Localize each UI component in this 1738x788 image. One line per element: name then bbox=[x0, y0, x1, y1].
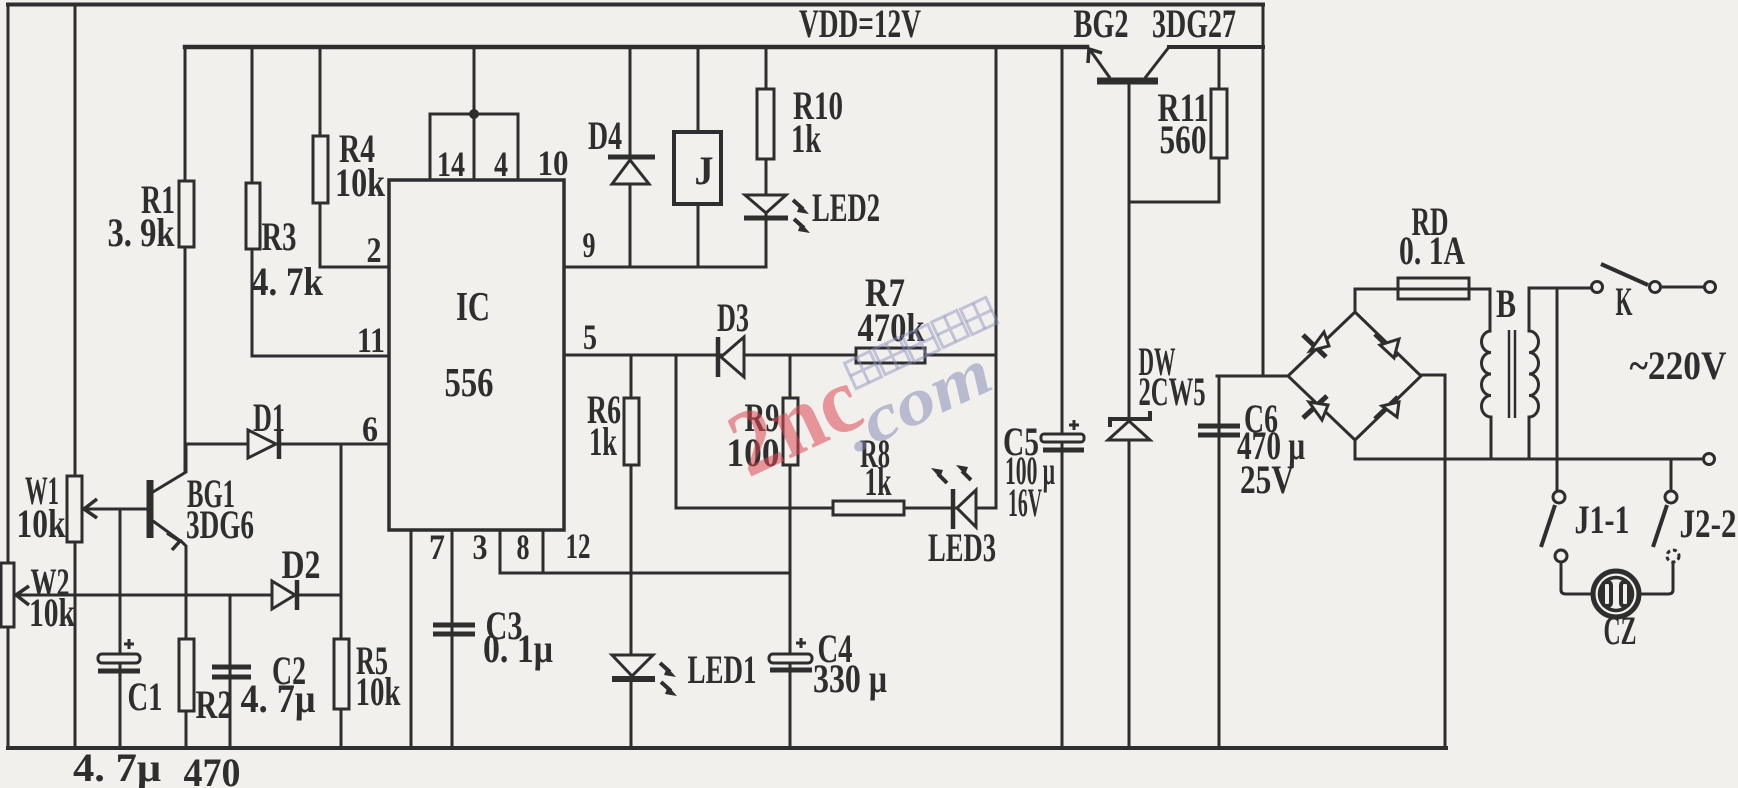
wire R6 / LED1 column bbox=[630, 355, 633, 748]
svg-text:3DG6: 3DG6 bbox=[186, 502, 254, 547]
wire secondary top lead bbox=[1529, 288, 1591, 331]
svg-text:LED3: LED3 bbox=[928, 525, 996, 570]
resistor R9 body bbox=[783, 398, 798, 465]
svg-text:D4: D4 bbox=[588, 113, 622, 158]
svg-text:LED1: LED1 bbox=[688, 647, 757, 692]
transistor BG2 collector bbox=[1145, 47, 1169, 78]
svg-text:4. 7μ: 4. 7μ bbox=[241, 676, 316, 721]
fuse RD through line bbox=[1398, 288, 1469, 291]
LED2 cathode bar bbox=[744, 216, 788, 221]
wire mains feed column bbox=[1556, 288, 1559, 491]
wire R1 column bbox=[184, 47, 187, 471]
svg-text:K: K bbox=[1616, 279, 1633, 324]
wire R4 column bbox=[319, 47, 322, 267]
wire fuse to primary bbox=[1469, 289, 1490, 331]
wire R10 / LED2 column bbox=[765, 47, 768, 267]
wire bridge top stub to fuse line bbox=[1355, 289, 1398, 312]
svg-text:0. 1A: 0. 1A bbox=[1399, 228, 1465, 273]
bridge diode bottom-left bbox=[1303, 396, 1327, 418]
LED1 arrows bbox=[660, 663, 670, 672]
svg-text:556: 556 bbox=[445, 359, 494, 405]
wire J1-1 to CZ bbox=[1561, 562, 1593, 594]
LED2 arrows bbox=[793, 200, 803, 209]
svg-text:8: 8 bbox=[517, 527, 530, 567]
wire R11 column bbox=[1218, 47, 1221, 202]
potentiometer W2 wiper arrow bbox=[16, 586, 29, 605]
wire DW column from BG2 base bbox=[1128, 84, 1131, 748]
svg-text:10k: 10k bbox=[356, 669, 402, 714]
svg-text:470k: 470k bbox=[858, 305, 926, 350]
transformer B secondary winding bbox=[1529, 331, 1539, 417]
capacitor C6 plates bbox=[1198, 426, 1240, 435]
wire right border down to bridge line bbox=[1262, 5, 1265, 377]
wire bridge bottom stub bbox=[1354, 440, 1357, 459]
svg-text:0. 1μ: 0. 1μ bbox=[483, 626, 553, 671]
svg-text:7: 7 bbox=[429, 527, 445, 567]
wire C1 column bbox=[119, 509, 122, 748]
svg-text:4. 7μ: 4. 7μ bbox=[73, 745, 161, 788]
relay J box bbox=[674, 132, 721, 204]
wire loop left column bbox=[675, 355, 678, 508]
wire pin9 line bbox=[564, 266, 766, 269]
watermark bbox=[713, 297, 1003, 497]
relay contact J2-2 blade bbox=[1653, 505, 1667, 547]
diode D4 cathode bar bbox=[608, 155, 655, 160]
svg-text:~220V: ~220V bbox=[1630, 343, 1727, 388]
svg-text:25V: 25V bbox=[1240, 457, 1294, 502]
wire bottom ground rail bbox=[8, 746, 1446, 750]
junction dot pins 14/4 feeder bbox=[469, 109, 479, 119]
svg-text:D1: D1 bbox=[253, 395, 285, 440]
svg-text:16V: 16V bbox=[1008, 480, 1042, 525]
LED1 cathode bar bbox=[612, 676, 655, 682]
wire R3 column bbox=[251, 47, 254, 356]
resistor R6 body bbox=[624, 398, 639, 465]
diode D4 triangle bbox=[612, 160, 649, 184]
wire secondary bottom lead bbox=[1528, 417, 1531, 459]
svg-text:1k: 1k bbox=[791, 116, 822, 161]
svg-text:560: 560 bbox=[1160, 117, 1207, 162]
transistor BG2 emitter with open arrowhead bbox=[1090, 50, 1110, 78]
capacitor C4 electrolytic positive plate bbox=[769, 654, 812, 663]
transistor BG2 base bar bbox=[1097, 78, 1158, 85]
wire pin8 lead bbox=[499, 530, 502, 573]
potentiometer W1 body bbox=[67, 476, 82, 542]
capacitor C1 negative plate bbox=[98, 669, 140, 674]
capacitor C4 plus sign bbox=[796, 638, 806, 648]
svg-text:IC: IC bbox=[456, 283, 490, 329]
svg-text:6: 6 bbox=[362, 409, 378, 449]
watermark CJK char boxes bbox=[844, 297, 997, 388]
svg-text:D3: D3 bbox=[717, 295, 749, 340]
LED3 cathode bar bbox=[951, 489, 956, 529]
bridge diode bottom-right bbox=[1375, 397, 1398, 419]
svg-text:4: 4 bbox=[494, 144, 508, 184]
relay contact J1-1 blade bbox=[1541, 505, 1555, 547]
LED1 triangle bbox=[612, 655, 653, 676]
wire VDD rail collector segment bbox=[1169, 45, 1263, 49]
capacitor C5 electrolytic positive plate bbox=[1041, 434, 1084, 442]
svg-text:3. 9k: 3. 9k bbox=[108, 210, 176, 255]
wire W1 column bbox=[74, 5, 77, 749]
resistor R3 body bbox=[246, 183, 260, 249]
resistor R8 body bbox=[833, 501, 904, 515]
transformer B primary winding bbox=[1482, 331, 1492, 417]
wire BG1 collector bbox=[153, 444, 186, 492]
wire pin7 column bbox=[410, 530, 413, 748]
wire pin2 lead bbox=[320, 266, 389, 269]
socket CZ inner circle bbox=[1600, 578, 1633, 611]
wire R9 / C4 column bbox=[789, 355, 792, 748]
relay contact J2-2 top circle bbox=[1665, 491, 1677, 503]
svg-text:BG2: BG2 bbox=[1074, 1, 1129, 46]
wire pin8/12 horizontal bbox=[500, 572, 790, 575]
relay contact J1-1 top circle bbox=[1553, 491, 1565, 503]
mains top terminal bbox=[1705, 282, 1716, 293]
wire BG1 emitter lead down through R2 bbox=[181, 541, 186, 748]
IC 556 box bbox=[389, 180, 564, 530]
svg-text:10k: 10k bbox=[335, 160, 386, 205]
capacitor C1 plus sign bbox=[124, 639, 134, 649]
wire J2-2 stub bbox=[1670, 459, 1673, 491]
svg-text:1k: 1k bbox=[589, 419, 617, 464]
wire C5 column bbox=[1061, 47, 1064, 748]
fuse RD body bbox=[1398, 278, 1469, 299]
resistor R7 body bbox=[856, 348, 925, 363]
socket CZ outer circle bbox=[1593, 571, 1639, 617]
resistor R10 body bbox=[757, 89, 774, 159]
capacitor C5 negative plate bbox=[1043, 448, 1084, 453]
wire pin5 line bbox=[564, 354, 996, 357]
svg-text:VDD=12V: VDD=12V bbox=[799, 1, 921, 46]
svg-text:B: B bbox=[1496, 281, 1516, 326]
capacitor C1 electrolytic positive plate bbox=[98, 654, 140, 663]
wire right loop column bbox=[995, 47, 998, 508]
wire bridge right to ground bbox=[1421, 375, 1445, 748]
wire D1-D2 junction column and R5 column bbox=[340, 444, 343, 748]
wire primary bottom lead bbox=[1490, 417, 1493, 459]
svg-text:C1: C1 bbox=[128, 674, 163, 719]
svg-text:11: 11 bbox=[357, 320, 385, 360]
wire bridge diamond bbox=[1288, 312, 1421, 440]
transformer B core bbox=[1509, 330, 1515, 418]
switch K middle terminal bbox=[1650, 282, 1661, 293]
diode D2 bbox=[272, 581, 295, 609]
wire pin3 / C3 column bbox=[451, 530, 454, 748]
capacitor C3 plates bbox=[433, 625, 475, 634]
wire pin11 lead bbox=[252, 355, 389, 358]
svg-text:D2: D2 bbox=[282, 542, 321, 587]
svg-text:14: 14 bbox=[437, 144, 465, 184]
resistor R1 body bbox=[179, 181, 194, 247]
switch K blade bbox=[1601, 264, 1648, 285]
bridge diode top-left bbox=[1303, 335, 1326, 357]
svg-text:CZ: CZ bbox=[1604, 608, 1637, 653]
LED3 triangle bbox=[957, 490, 976, 527]
svg-text:R3: R3 bbox=[262, 214, 297, 259]
resistor R5 body bbox=[334, 639, 349, 709]
wire K link bbox=[1661, 286, 1704, 289]
wire bracket feeder pins 14-4 bbox=[473, 47, 476, 180]
switch K left terminal bbox=[1592, 282, 1603, 293]
wire W2 wiper / D2 line bbox=[16, 594, 339, 597]
wire bottom AC line bbox=[1355, 458, 1703, 461]
svg-text:4. 7k: 4. 7k bbox=[251, 259, 324, 304]
capacitor C2 plates bbox=[212, 667, 251, 677]
svg-text:J1-1: J1-1 bbox=[1575, 497, 1630, 542]
svg-text:10k: 10k bbox=[17, 501, 67, 546]
capacitor C4 negative plate bbox=[770, 668, 812, 673]
transistor BG1 emitter with open arrowhead bbox=[153, 521, 179, 540]
svg-text:470: 470 bbox=[184, 750, 241, 788]
mains bottom terminal bbox=[1704, 454, 1715, 465]
diode D3 triangle bbox=[721, 337, 744, 377]
resistor R4 body bbox=[313, 136, 328, 203]
resistor R2 body bbox=[179, 639, 194, 711]
zener diode DW bar bbox=[1110, 411, 1150, 427]
wire pin6 / D1 line bbox=[186, 443, 389, 446]
diode D1 bbox=[248, 430, 276, 458]
wire C2 column bbox=[229, 595, 232, 748]
svg-text:12: 12 bbox=[566, 526, 591, 566]
wire R11 bottom to base bbox=[1129, 201, 1219, 204]
svg-text:5: 5 bbox=[583, 317, 597, 357]
svg-text:J2-2: J2-2 bbox=[1680, 501, 1737, 546]
LED2 triangle bbox=[745, 195, 786, 213]
svg-text:3DG27: 3DG27 bbox=[1152, 1, 1236, 46]
wire top border raw supply bus bbox=[8, 3, 1263, 7]
wire R8 LED3 line bbox=[676, 507, 996, 510]
svg-text:2CW5: 2CW5 bbox=[1139, 369, 1206, 414]
wire J2-2 to CZ bbox=[1639, 562, 1673, 594]
resistor R11 body bbox=[1211, 89, 1227, 158]
wire left border bbox=[7, 5, 10, 749]
diode D3 cathode bar bbox=[716, 337, 721, 377]
wire D4 column bbox=[629, 47, 632, 267]
svg-text:1k: 1k bbox=[865, 459, 892, 504]
LED3 arrows bbox=[938, 474, 947, 483]
wire W1 wiper to BG1 base bbox=[84, 508, 147, 511]
capacitor C5 plus sign bbox=[1069, 420, 1079, 430]
svg-text:3: 3 bbox=[473, 527, 488, 567]
svg-text:10: 10 bbox=[538, 143, 569, 183]
potentiometer W1 wiper arrow bbox=[84, 499, 97, 518]
svg-text:2: 2 bbox=[367, 230, 382, 270]
wire bracket pins 14 and 4 bbox=[430, 114, 518, 180]
wire C6 column bbox=[1218, 376, 1221, 748]
relay contact J2-2 bottom circle bbox=[1667, 550, 1679, 562]
svg-text:LED2: LED2 bbox=[812, 185, 880, 230]
wire VDD rail bbox=[185, 45, 1087, 50]
zener diode DW triangle bbox=[1108, 421, 1150, 440]
wire J leads bbox=[697, 47, 700, 267]
wire pin12 lead bbox=[542, 530, 545, 573]
svg-text:10k: 10k bbox=[29, 590, 76, 635]
transistor BG1 base bar bbox=[147, 480, 154, 538]
svg-text:9: 9 bbox=[583, 225, 596, 265]
svg-text:J: J bbox=[695, 148, 714, 193]
wire bridge plus line bbox=[1217, 375, 1288, 378]
socket CZ slots bbox=[1603, 582, 1611, 606]
potentiometer W2 body bbox=[1, 563, 14, 627]
svg-text:R2: R2 bbox=[196, 682, 233, 727]
relay contact J1-1 bottom circle bbox=[1555, 550, 1567, 562]
svg-text:330 μ: 330 μ bbox=[813, 656, 887, 701]
bridge diode top-right bbox=[1375, 334, 1398, 356]
